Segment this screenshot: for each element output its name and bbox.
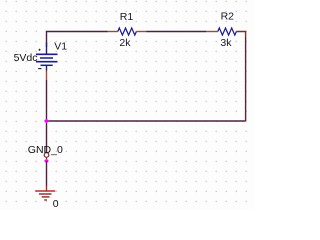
svg-text:0: 0 [53,198,59,210]
R1 value 2k [119,37,131,49]
net connector GND_0 (circle) [44,153,49,161]
svg-text:3k: 3k [220,37,232,49]
svg-text:R2: R2 [221,11,235,23]
junction at V1- / bottom net [44,119,49,124]
ground 0 (earth symbol) [35,186,55,200]
ground 0 label [53,198,59,210]
svg-text:V1: V1 [54,40,67,52]
V1 reference label [54,40,67,52]
voltage source V1 (battery) [36,43,58,81]
V1 value 5Vdc [14,52,38,64]
junction at GND_0 node [44,159,49,164]
resistor R1 [108,28,147,35]
svg-text:5Vdc: 5Vdc [14,52,38,64]
R2 reference label [221,11,235,23]
resistor R2 [206,28,246,37]
wire: bottom net horizontal [47,120,246,122]
GND_0 label [28,144,63,156]
wire: V1- down to GND_0 connector [46,80,48,153]
svg-text:GND_0: GND_0 [28,144,63,156]
wire: R2 right vertical down (right net) [245,37,247,121]
svg-text:R1: R1 [120,11,134,23]
wire: R1 right to R2 left (top net) [147,31,207,33]
svg-text:2k: 2k [119,37,131,49]
R2 value 3k [220,37,232,49]
wire: GND_0 to ground symbol [46,161,48,186]
wire: V1+ corner to R1 left (top net) [47,32,108,48]
R1 reference label [120,11,134,23]
